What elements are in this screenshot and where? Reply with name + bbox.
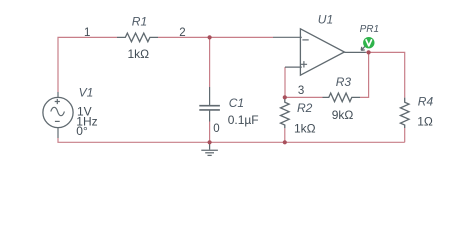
resistor R2 — [280, 99, 289, 128]
probe PR1 — [361, 37, 374, 50]
svg-text:V1: V1 — [79, 86, 94, 100]
wire V1 top to R1 — [58, 37, 117, 92]
wire bottom ground net — [58, 138, 405, 142]
svg-text:R1: R1 — [132, 15, 147, 29]
capacitor C1 — [199, 87, 220, 122]
wire R2 to bottom net — [284, 128, 286, 142]
svg-text:C1: C1 — [229, 96, 244, 110]
ground — [201, 142, 218, 155]
svg-text:1kΩ: 1kΩ — [128, 47, 150, 61]
op-amp U1 — [273, 29, 366, 75]
wire R3 to output node — [360, 52, 369, 97]
resistor R4 — [400, 98, 409, 128]
svg-text:1Ω: 1Ω — [417, 115, 433, 129]
wire R1 to op-amp inverting input — [158, 36, 273, 38]
svg-text:PR1: PR1 — [360, 24, 379, 35]
svg-text:2: 2 — [179, 27, 185, 39]
wire node 3 to R3 — [285, 96, 323, 98]
resistor R1 — [117, 33, 158, 42]
wire node 2 down to C1 — [209, 37, 211, 87]
svg-text:R4: R4 — [418, 95, 434, 109]
svg-text:0°: 0° — [76, 124, 88, 138]
voltage source V1 — [43, 92, 73, 138]
svg-text:R2: R2 — [297, 101, 313, 115]
junction node 3 — [283, 95, 287, 99]
resistor R3 — [323, 93, 361, 102]
junction node 2 — [208, 35, 212, 39]
svg-text:U1: U1 — [318, 12, 333, 26]
svg-text:0: 0 — [213, 123, 219, 135]
svg-text:R3: R3 — [336, 75, 352, 89]
svg-text:1: 1 — [84, 27, 90, 39]
svg-text:1kΩ: 1kΩ — [294, 121, 316, 135]
svg-text:0.1µF: 0.1µF — [228, 113, 259, 127]
junction R2 bottom — [283, 140, 287, 144]
junction ground — [208, 140, 212, 144]
wire op-amp noninverting input to node 3 — [284, 67, 286, 97]
wire R4 to bottom net — [404, 128, 406, 142]
wire output node to R4 — [366, 52, 405, 97]
svg-text:9kΩ: 9kΩ — [332, 108, 354, 122]
junction output node — [367, 50, 371, 54]
svg-text:3: 3 — [298, 85, 304, 97]
wire C1 to bottom net — [209, 122, 211, 143]
